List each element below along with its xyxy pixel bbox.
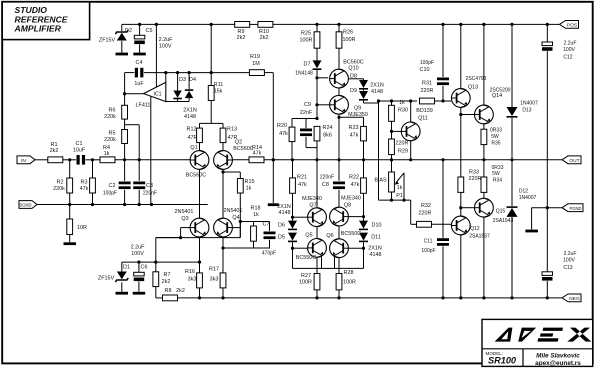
resistor R28 <box>338 258 340 274</box>
resistor R3 <box>92 160 94 178</box>
wire R2 to signal ground <box>69 193 71 205</box>
svg-text:R7: R7 <box>164 272 171 278</box>
wire D12 to negative rail <box>511 217 513 298</box>
wire R28 to negative rail <box>338 290 340 298</box>
wire pot bottom <box>391 192 393 200</box>
transistor Q15 <box>475 198 494 217</box>
resistor R10 <box>258 22 273 28</box>
transistor Q8 <box>330 207 349 226</box>
transistor Q14 <box>483 24 485 105</box>
wire R19 to output line <box>264 72 273 74</box>
wire op-amp inverting stub <box>165 73 167 83</box>
svg-text:4148: 4148 <box>279 210 291 216</box>
wire R30 to Q11 base <box>391 121 393 131</box>
capacitor C10 <box>442 24 444 77</box>
wire positive rail right segment <box>273 23 562 25</box>
wire C1 to R4 <box>86 159 101 161</box>
wire C11 to negative rail <box>442 246 444 298</box>
wire R4 to Q1 base <box>115 159 190 161</box>
svg-text:2X1N: 2X1N <box>368 245 382 251</box>
svg-text:220k: 220k <box>104 114 116 120</box>
svg-text:PGND: PGND <box>569 206 581 211</box>
capacitor C4 <box>135 68 138 78</box>
resistor R34 <box>483 160 485 177</box>
svg-text:R4: R4 <box>103 145 110 151</box>
wire R22 to diode D10 <box>363 193 365 220</box>
svg-text:100R: 100R <box>343 37 356 43</box>
svg-text:10R: 10R <box>77 225 87 231</box>
svg-text:Q6: Q6 <box>326 233 333 239</box>
svg-text:C13: C13 <box>563 265 572 271</box>
svg-text:R31: R31 <box>422 80 432 86</box>
resistor R15 <box>237 179 243 194</box>
svg-text:C2: C2 <box>109 183 116 189</box>
wire Q15 collector to negative rail <box>483 217 485 298</box>
zener D1 <box>121 262 123 271</box>
capacitor C2 <box>124 160 126 181</box>
svg-text:D2: D2 <box>125 28 132 34</box>
svg-text:R15: R15 <box>245 179 255 185</box>
transistor Q11 BD139 <box>401 122 420 141</box>
title block <box>2 2 89 40</box>
wire inverting input line <box>144 72 250 74</box>
svg-text:2N5401: 2N5401 <box>224 208 243 214</box>
svg-text:Q2: Q2 <box>235 140 242 146</box>
wire C13 to negative rail <box>546 281 548 298</box>
svg-text:ZF15V: ZF15V <box>98 275 115 281</box>
svg-text:47k: 47k <box>298 182 307 188</box>
svg-text:220k: 220k <box>53 186 65 192</box>
wire D7 to Q10 base and Q9 base <box>316 70 318 119</box>
resistor R30 <box>391 101 393 105</box>
resistor R27 <box>316 257 318 273</box>
wire vas output line <box>379 100 418 102</box>
svg-text:47k: 47k <box>350 132 359 138</box>
resistor R16 <box>197 273 203 288</box>
svg-text:1N4007: 1N4007 <box>520 101 538 107</box>
svg-text:D8: D8 <box>350 73 357 79</box>
resistor R23 <box>363 117 365 126</box>
svg-text:2X1N: 2X1N <box>277 204 291 210</box>
wire bias to R32 <box>379 199 411 201</box>
svg-text:470pF: 470pF <box>262 250 276 256</box>
svg-text:3k3: 3k3 <box>188 276 197 282</box>
svg-text:BC560C: BC560C <box>233 146 253 152</box>
terminal SGND <box>19 201 37 209</box>
svg-text:Q12: Q12 <box>470 226 480 232</box>
capacitor C1 <box>77 155 80 165</box>
svg-text:R30: R30 <box>398 107 408 113</box>
svg-text:R8: R8 <box>165 288 172 294</box>
wire R29 down to pot <box>391 155 393 172</box>
transistor Q12 <box>451 216 470 235</box>
svg-text:0R33: 0R33 <box>490 128 502 134</box>
wire emitter bracket <box>293 267 364 269</box>
svg-text:BIAS: BIAS <box>374 177 387 183</box>
resistor R18 <box>223 247 270 249</box>
transistor Q10 <box>330 69 349 88</box>
ac ground bar <box>268 203 279 206</box>
wire input <box>35 159 48 161</box>
ground bar for D2 <box>116 53 129 56</box>
diode D8 <box>363 79 365 80</box>
svg-text:Mile Slavkovic: Mile Slavkovic <box>536 353 580 360</box>
resistor R5 <box>122 130 128 144</box>
wire Q12 collector to negative rail <box>460 235 462 298</box>
wire R33 column <box>460 115 462 178</box>
wire feedback column <box>155 238 157 272</box>
svg-text:R25: R25 <box>301 30 311 36</box>
svg-text:2SA1837: 2SA1837 <box>469 234 490 240</box>
resistor R1 <box>48 157 63 163</box>
svg-text:2k2: 2k2 <box>162 279 171 285</box>
transistor Q13 <box>460 24 462 88</box>
logo box <box>482 319 593 366</box>
op-amp IC1 <box>144 82 166 101</box>
wire current mirror base rail <box>156 237 241 239</box>
svg-text:220nF: 220nF <box>143 191 157 197</box>
wire op-amp output to feedback node <box>125 93 144 95</box>
APEX logo <box>495 328 592 342</box>
svg-text:D3: D3 <box>179 77 186 83</box>
capacitor C3 <box>133 182 145 185</box>
wire R17 to negative rail <box>222 288 224 298</box>
svg-text:1N4148: 1N4148 <box>295 70 313 76</box>
wire op-amp V- pin to signal ground <box>150 96 152 204</box>
wire Q10 to Q9 <box>338 88 340 96</box>
capacitor C7 <box>269 222 271 231</box>
wire diode bottoms to op-amp input <box>177 99 179 101</box>
svg-text:4148: 4148 <box>371 89 383 95</box>
svg-text:C6: C6 <box>141 265 148 271</box>
capacitor C6 <box>138 262 140 272</box>
svg-text:POS: POS <box>567 23 577 29</box>
wire signal ground rail <box>37 204 208 206</box>
wire Q11 collector up <box>410 101 412 122</box>
terminal PGND <box>562 204 583 212</box>
terminal NEG <box>562 294 581 302</box>
diode D9 <box>363 90 365 91</box>
wire C12 to protective ground <box>546 51 548 208</box>
diode D4 <box>188 73 190 90</box>
svg-text:D13: D13 <box>522 108 531 114</box>
wire R20 down <box>291 142 293 160</box>
wire Q9 collector down through C8 <box>338 114 340 181</box>
svg-text:22nF: 22nF <box>300 110 313 116</box>
svg-text:47R: 47R <box>188 135 198 141</box>
wire op-amp V+ pin to positive sub-rail <box>155 24 157 87</box>
svg-text:100pF: 100pF <box>103 191 117 197</box>
svg-text:2.2uF: 2.2uF <box>159 37 173 43</box>
svg-text:2SA1943: 2SA1943 <box>493 218 514 224</box>
transistor Q7 <box>316 160 318 208</box>
svg-text:2k2: 2k2 <box>237 35 246 41</box>
wire R12 to Q1 <box>199 143 201 151</box>
resistor R19 <box>249 70 264 76</box>
wire R21 to diode D6 <box>292 193 294 220</box>
svg-text:R13: R13 <box>227 127 237 133</box>
svg-text:C1: C1 <box>76 141 83 147</box>
diode D7 <box>316 48 318 60</box>
resistor R6 <box>124 94 126 106</box>
svg-text:BC550C: BC550C <box>341 231 361 237</box>
svg-text:2.2uF: 2.2uF <box>564 251 577 257</box>
ground bar for D1 <box>121 282 123 292</box>
resistor R22 <box>363 160 365 178</box>
wire positive rail left segment <box>122 23 235 25</box>
svg-text:8k6: 8k6 <box>323 132 332 138</box>
wire R7 to R8 <box>155 287 157 298</box>
svg-text:5W: 5W <box>491 134 499 140</box>
wire Q2 collector down <box>222 169 224 218</box>
svg-text:10uF: 10uF <box>73 147 86 153</box>
wire R5 to input node <box>124 144 126 160</box>
resistor R2 <box>69 160 71 178</box>
svg-text:R12: R12 <box>187 127 197 133</box>
svg-text:IC1: IC1 <box>153 92 161 98</box>
wire R16 tap <box>156 261 200 263</box>
resistor R14 <box>249 157 264 163</box>
wire D9 to vas node <box>363 101 365 103</box>
wire D5 down <box>292 242 294 268</box>
svg-text:47k: 47k <box>351 182 360 188</box>
wire vas column down <box>378 101 380 200</box>
svg-text:D4: D4 <box>189 77 196 83</box>
svg-text:LF411: LF411 <box>136 103 151 109</box>
wire Q6 base <box>347 247 364 249</box>
resistor 10R <box>69 205 71 220</box>
svg-text:R3: R3 <box>81 180 88 186</box>
svg-text:100V: 100V <box>159 43 172 49</box>
capacitor C11 <box>442 160 444 238</box>
resistor R29 <box>391 131 393 139</box>
wire R18 top link <box>253 222 255 227</box>
svg-text:47k: 47k <box>279 131 288 137</box>
svg-text:Q13: Q13 <box>468 84 478 90</box>
transistor Q1 <box>190 151 209 170</box>
transistor Q6 <box>338 226 340 239</box>
svg-text:1k: 1k <box>399 100 405 106</box>
resistor R31 <box>420 98 435 104</box>
svg-text:100V: 100V <box>131 251 144 257</box>
svg-text:R2: R2 <box>57 180 64 186</box>
wire protective ground line <box>532 207 562 209</box>
wire Q10 to D8 <box>348 78 363 80</box>
transistor Q3 <box>190 218 209 237</box>
diode D10 <box>359 221 368 229</box>
svg-text:D11: D11 <box>371 235 381 241</box>
resistor R12 <box>197 128 203 143</box>
svg-text:5W: 5W <box>492 171 500 177</box>
wire R31 to Q13 base <box>435 100 452 102</box>
svg-text:2X1N: 2X1N <box>370 83 384 89</box>
wire C9 bottom <box>305 137 307 148</box>
wire C3 to signal ground <box>138 190 140 205</box>
wire output node line <box>264 159 562 161</box>
resistor R13 <box>220 128 226 143</box>
svg-text:apex@eunet.rs: apex@eunet.rs <box>535 360 581 367</box>
diode D3 <box>177 73 179 91</box>
svg-text:C9: C9 <box>304 102 311 108</box>
svg-text:R35: R35 <box>491 140 500 146</box>
svg-text:R16: R16 <box>185 269 195 275</box>
capacitor C9 <box>305 119 307 129</box>
svg-text:4148: 4148 <box>370 252 382 258</box>
resistor R8 <box>163 295 178 301</box>
svg-text:ZF15V: ZF15V <box>99 38 116 44</box>
diode D11 <box>359 233 368 241</box>
wire Q3 collector down <box>199 237 201 273</box>
zener D2 <box>121 24 123 31</box>
svg-text:C5: C5 <box>146 28 153 34</box>
capacitor C12 <box>546 24 548 42</box>
svg-text:Q10: Q10 <box>348 66 358 72</box>
wire R33 to Q15 base node <box>460 192 462 216</box>
svg-text:D5: D5 <box>278 235 285 241</box>
svg-text:R11: R11 <box>214 82 224 88</box>
wire R27 to negative rail <box>316 290 318 298</box>
wire Q7 base <box>293 216 308 218</box>
svg-text:R29: R29 <box>398 148 408 154</box>
wire feedback link to mirror rail <box>156 237 181 239</box>
wire R6-R5 junction <box>124 119 126 129</box>
svg-text:SR100: SR100 <box>488 356 517 366</box>
svg-text:100R: 100R <box>299 280 312 286</box>
wire R3 to signal ground <box>92 193 94 205</box>
svg-text:100V: 100V <box>563 47 575 53</box>
svg-text:Q7: Q7 <box>309 202 316 208</box>
svg-text:R9: R9 <box>238 29 245 35</box>
svg-text:3k3: 3k3 <box>210 276 219 282</box>
svg-text:220nF: 220nF <box>320 175 334 181</box>
svg-text:BC560C: BC560C <box>186 172 206 178</box>
svg-text:BD139: BD139 <box>416 108 432 114</box>
wire Q8 base <box>347 216 364 218</box>
wire R35 to output <box>483 145 485 160</box>
svg-text:Q8: Q8 <box>344 202 351 208</box>
svg-text:220R: 220R <box>421 88 434 94</box>
capacitor C5 <box>139 24 141 35</box>
wire R1 to C1 <box>63 159 76 161</box>
terminal IN <box>17 156 35 164</box>
svg-text:D10: D10 <box>372 223 382 229</box>
wire Q2 to R15 <box>223 171 240 173</box>
svg-text:R21: R21 <box>297 174 307 180</box>
svg-text:100V: 100V <box>563 258 575 264</box>
svg-text:1M: 1M <box>252 61 260 67</box>
wire Q4 collector down <box>222 237 224 273</box>
svg-text:D9: D9 <box>350 88 357 94</box>
wire Q5 base <box>293 247 308 249</box>
resistor R4 <box>100 157 115 163</box>
wire R13 to Q2 <box>222 143 224 151</box>
wire R32 to Q12 base <box>411 223 417 225</box>
wire R26 to Q10 <box>338 48 340 69</box>
svg-text:C7: C7 <box>263 221 270 227</box>
svg-text:1k: 1k <box>246 185 252 191</box>
svg-text:R23: R23 <box>349 125 359 131</box>
svg-text:C10: C10 <box>420 67 430 73</box>
svg-text:1N4007: 1N4007 <box>519 195 537 201</box>
svg-text:Q9: Q9 <box>354 105 361 111</box>
svg-text:0R33: 0R33 <box>492 165 504 171</box>
resistor R7 <box>153 272 159 287</box>
svg-text:1k: 1k <box>104 151 110 157</box>
resistor R9 <box>235 22 250 28</box>
svg-text:AMPLIFIER: AMPLIFIER <box>14 24 62 34</box>
svg-text:R22: R22 <box>349 174 359 180</box>
svg-text:R27: R27 <box>301 273 311 279</box>
svg-text:2X1N: 2X1N <box>183 108 197 114</box>
svg-text:BC560C: BC560C <box>343 59 363 65</box>
svg-text:D6: D6 <box>278 223 285 229</box>
svg-text:1k: 1k <box>253 212 259 218</box>
wire R16 to negative rail <box>199 288 201 298</box>
wire zener line <box>122 261 156 263</box>
svg-text:Q11: Q11 <box>418 115 428 121</box>
wire to capacitor C3 <box>138 125 140 181</box>
resistor R21 <box>292 160 294 178</box>
svg-text:R18: R18 <box>251 206 261 212</box>
potentiometer P1 BIAS <box>389 172 395 192</box>
svg-text:R26: R26 <box>343 29 353 35</box>
svg-text:220k: 220k <box>104 137 116 143</box>
svg-text:C11: C11 <box>424 239 433 245</box>
svg-text:R32: R32 <box>421 203 431 209</box>
resistor R26 <box>338 24 340 31</box>
transistor Q9 <box>330 95 349 114</box>
svg-text:R5: R5 <box>109 131 116 137</box>
wire negative rail <box>177 297 561 299</box>
svg-text:220R: 220R <box>469 176 482 182</box>
svg-text:100pF: 100pF <box>420 60 434 66</box>
wire Q1 collector down <box>199 169 201 218</box>
capacitor C8 <box>333 182 345 185</box>
transistor Q2 <box>214 151 233 170</box>
svg-text:IN: IN <box>21 158 26 164</box>
capacitor C13 <box>546 208 548 272</box>
wire R23 down <box>363 141 365 160</box>
resistor R32 <box>417 221 432 227</box>
svg-text:2.2uF: 2.2uF <box>131 245 145 251</box>
resistor R11 column <box>210 24 212 85</box>
svg-text:2N5401: 2N5401 <box>175 209 194 215</box>
svg-text:2.2uF: 2.2uF <box>564 41 577 47</box>
svg-text:NEG: NEG <box>569 296 580 302</box>
svg-text:Q3: Q3 <box>181 216 188 222</box>
svg-text:15k: 15k <box>214 89 223 95</box>
svg-text:Q15: Q15 <box>496 209 506 215</box>
wire R15 down to mirror rail <box>239 193 241 238</box>
svg-text:2k2: 2k2 <box>260 35 269 41</box>
resistor R17 <box>220 273 226 288</box>
svg-text:Q4: Q4 <box>232 215 239 221</box>
diode D13 <box>511 24 513 107</box>
wire Q13 emitter to Q14 base <box>460 107 462 114</box>
svg-text:R6: R6 <box>109 108 116 114</box>
wire C8 to Q8 <box>338 190 340 208</box>
wire R11 to diff pair tail <box>210 101 212 124</box>
wire Q11 emitter down <box>410 141 412 160</box>
svg-text:BC550C: BC550C <box>296 255 316 261</box>
svg-text:R20: R20 <box>277 123 287 129</box>
svg-text:D7: D7 <box>304 61 311 67</box>
resistor R11 <box>208 86 214 101</box>
svg-text:R19: R19 <box>250 54 260 60</box>
svg-text:4148: 4148 <box>184 114 196 120</box>
wire D13 to output line <box>511 118 513 160</box>
transistor Q4 <box>214 218 233 237</box>
